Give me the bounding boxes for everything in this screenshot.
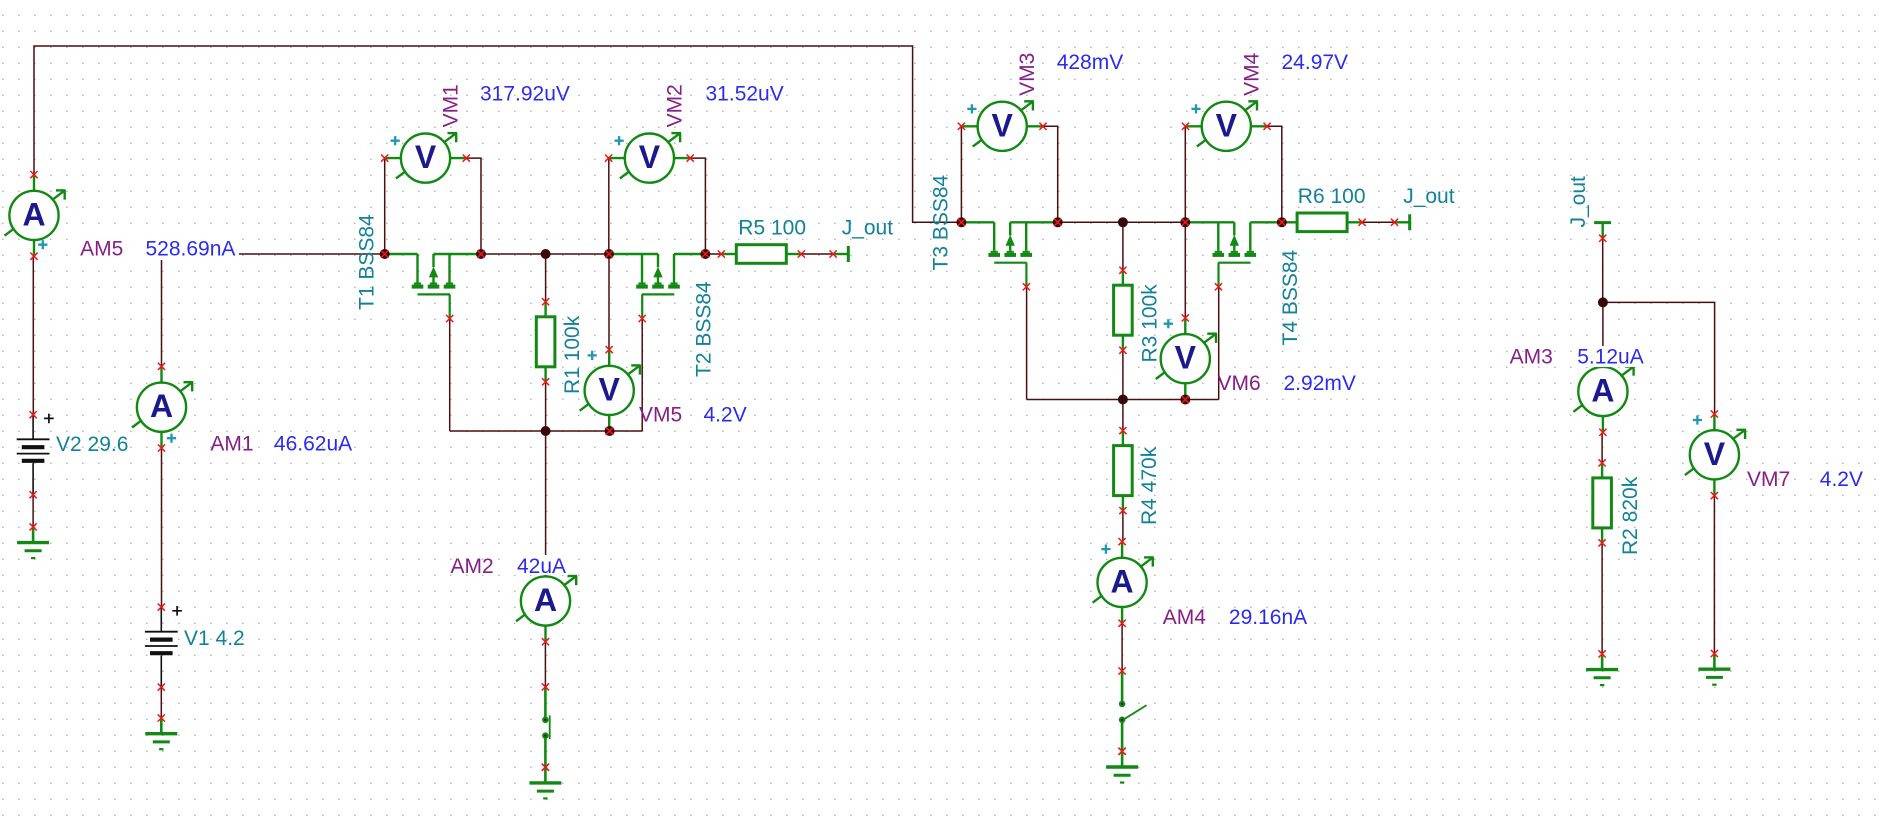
label R5 100 xyxy=(738,216,806,239)
svg-text:R6 100: R6 100 xyxy=(1298,185,1366,208)
voltmeter VM2 xyxy=(605,133,694,183)
label AM4 xyxy=(1163,606,1207,629)
transistor T1 BSS84 xyxy=(385,254,481,322)
svg-text:AM4: AM4 xyxy=(1163,606,1207,629)
wire VM1 right drop xyxy=(466,158,481,254)
value AM5 528.69nA xyxy=(141,237,239,260)
svg-text:AM3: AM3 xyxy=(1510,346,1553,369)
label VM3 xyxy=(1016,53,1039,96)
svg-text:VM4: VM4 xyxy=(1240,52,1263,96)
resistor R2 820k xyxy=(1593,459,1612,546)
wire R1 top xyxy=(545,254,547,302)
svg-text:428mV: 428mV xyxy=(1057,51,1124,74)
wire gate rail to AM2 xyxy=(545,431,547,560)
transistor T2 BSS84 xyxy=(609,254,705,322)
node T3 source / VM3- xyxy=(1053,217,1063,227)
label R3 100k xyxy=(1139,284,1162,363)
svg-text:A: A xyxy=(534,582,557,618)
ammeter AM5 xyxy=(5,171,66,260)
wire T1 gate drop xyxy=(449,319,451,432)
wire V2 to ground xyxy=(32,495,34,527)
value VM1 317.92uV xyxy=(480,83,570,106)
svg-text:AM5: AM5 xyxy=(80,237,123,260)
value VM7 4.2V xyxy=(1820,468,1863,491)
wire R6 to J_out xyxy=(1362,221,1394,223)
label J_out far right xyxy=(1567,176,1590,228)
resistor R4 470k xyxy=(1114,427,1133,514)
transistor T4 BSS84 xyxy=(1185,222,1281,290)
wire R3 top xyxy=(1122,222,1124,270)
wire node to AM3 xyxy=(1602,302,1604,350)
switch below AM2 (closed) xyxy=(542,683,550,771)
svg-text:J_out: J_out xyxy=(1403,185,1455,208)
resistor R5 100 xyxy=(718,245,805,264)
node T1 drain / input xyxy=(380,249,390,259)
wire VM4 left drop xyxy=(1184,126,1186,222)
node R3 top xyxy=(1118,217,1128,227)
svg-text:T1 BSS84: T1 BSS84 xyxy=(356,214,379,310)
node J_out / AM3 / VM7 xyxy=(1598,297,1608,307)
svg-text:T3 BSS84: T3 BSS84 xyxy=(930,174,953,270)
wire T2 to R5 xyxy=(705,253,721,255)
wire AM1 to V1 xyxy=(161,449,163,607)
label AM3 xyxy=(1510,346,1553,369)
label VM7 xyxy=(1747,468,1790,491)
svg-text:R2 820k: R2 820k xyxy=(1619,476,1642,555)
switch below AM4 (open) xyxy=(1119,667,1147,755)
svg-text:VM2: VM2 xyxy=(663,84,686,127)
label VM1 xyxy=(440,84,463,127)
voltmeter VM4 xyxy=(1182,101,1271,151)
label R4 470k xyxy=(1138,446,1161,525)
wire R3 bottom xyxy=(1122,350,1124,399)
svg-text:2.92mV: 2.92mV xyxy=(1284,372,1356,395)
wire bottom gate rail left block xyxy=(450,430,643,432)
svg-text:A: A xyxy=(1111,563,1134,599)
svg-text:V1 4.2: V1 4.2 xyxy=(184,627,245,650)
value VM3 428mV xyxy=(1057,51,1124,74)
resistor R3 100k xyxy=(1114,267,1133,354)
wire V1 to ground xyxy=(160,687,162,718)
wire AM4 to switch xyxy=(1121,623,1123,671)
svg-text:VM3: VM3 xyxy=(1016,53,1039,96)
svg-text:42uA: 42uA xyxy=(517,555,566,578)
label R1 100k xyxy=(561,315,584,394)
wire gate rail to R4 xyxy=(1122,400,1124,431)
svg-text:VM6: VM6 xyxy=(1218,372,1261,395)
svg-text:V: V xyxy=(599,371,621,407)
svg-text:31.52uV: 31.52uV xyxy=(706,83,784,106)
label AM5 xyxy=(76,237,136,260)
label J_out right xyxy=(1403,185,1455,208)
ammeter AM3 xyxy=(1573,347,1634,436)
wire T4 gate drop xyxy=(1218,287,1220,400)
svg-text:AM1: AM1 xyxy=(210,432,253,455)
wire bottom gate rail right block xyxy=(1027,399,1219,401)
svg-text:5.12uA: 5.12uA xyxy=(1577,346,1644,369)
wire VM6 top xyxy=(1184,222,1186,318)
ground below AM4 xyxy=(1106,748,1138,783)
value VM4 24.97V xyxy=(1282,51,1349,74)
wire AM1 node to T1 gate rail xyxy=(162,254,385,367)
svg-text:V: V xyxy=(992,107,1014,143)
svg-text:T4 BSS84: T4 BSS84 xyxy=(1279,249,1302,345)
svg-text:VM1: VM1 xyxy=(440,84,463,127)
voltmeter VM5 xyxy=(580,346,641,435)
svg-text:A: A xyxy=(22,196,45,232)
ground below V1 xyxy=(145,714,177,749)
wire VM7 to ground xyxy=(1713,496,1715,654)
wire VM5 top xyxy=(608,254,610,350)
transistor T3 BSS84 xyxy=(961,222,1057,290)
svg-text:46.62uA: 46.62uA xyxy=(274,432,352,455)
resistor R1 100k xyxy=(536,298,555,385)
svg-text:VM5: VM5 xyxy=(639,404,682,427)
label V1 value xyxy=(184,627,245,650)
label VM2 xyxy=(663,84,686,127)
wire node to VM7 xyxy=(1603,302,1715,414)
wire T3 gate drop xyxy=(1026,287,1028,400)
value VM6 2.92mV xyxy=(1284,372,1356,395)
node VM6- on gate rail xyxy=(1180,395,1190,405)
label R6 100 xyxy=(1298,185,1366,208)
svg-text:4.2V: 4.2V xyxy=(1820,468,1863,491)
ammeter AM4 xyxy=(1093,538,1154,627)
label J_out left xyxy=(842,216,894,239)
node T4 drain / R6 (J_out net) xyxy=(1277,217,1287,227)
svg-text:A: A xyxy=(1591,373,1614,409)
battery V2 29.6 xyxy=(17,411,54,498)
svg-text:T2 BSS84: T2 BSS84 xyxy=(693,281,716,377)
wire VM1 left drop xyxy=(384,158,386,254)
wire VM4 right drop xyxy=(1267,126,1282,222)
label AM2 xyxy=(451,555,494,578)
svg-text:AM2: AM2 xyxy=(451,555,494,578)
value VM2 31.52uV xyxy=(706,83,784,106)
wire T2 gate drop xyxy=(641,319,643,432)
voltmeter VM1 xyxy=(381,133,470,183)
value VM5 4.2V xyxy=(704,404,747,427)
value AM4 29.16nA xyxy=(1229,606,1307,629)
wire R1 bottom xyxy=(545,382,547,431)
voltmeter VM6 xyxy=(1156,314,1217,403)
wire VM3 left drop xyxy=(960,126,962,222)
value AM1 46.62uA xyxy=(274,432,352,455)
svg-text:J_out: J_out xyxy=(842,216,894,239)
wire AM2 to switch xyxy=(544,642,546,687)
node gate rail / AM2 xyxy=(541,426,551,436)
node VM5- on gate rail xyxy=(605,426,615,436)
svg-text:VM7: VM7 xyxy=(1747,468,1790,491)
input terminal J_out far right xyxy=(1594,223,1611,242)
svg-text:4.2V: 4.2V xyxy=(704,404,747,427)
label T2 BSS84 xyxy=(693,281,716,377)
node T1 source / VM1- xyxy=(476,249,486,259)
node gate rail / R4 xyxy=(1118,395,1128,405)
node T2 drain / R5 (J_out net) xyxy=(700,249,710,259)
wire rail T1 to T2 xyxy=(481,253,609,255)
wire VM3 right drop xyxy=(1043,126,1058,222)
wire V2 feed to top rail and down to T3 block xyxy=(34,46,961,222)
svg-text:V: V xyxy=(1175,340,1197,376)
label T4 BSS84 xyxy=(1279,249,1302,345)
wire VM2 left drop xyxy=(608,158,610,254)
svg-text:528.69nA: 528.69nA xyxy=(146,237,236,260)
label VM4 xyxy=(1240,52,1263,96)
wire rail T3 to T4 xyxy=(1058,221,1186,223)
node T4 source / VM4+ / VM6+ xyxy=(1180,217,1190,227)
value AM2 42uA xyxy=(513,555,568,578)
svg-text:V: V xyxy=(415,139,437,175)
label VM6 xyxy=(1218,372,1261,395)
label R2 820k xyxy=(1619,476,1642,555)
node T3 drain / input xyxy=(956,217,966,227)
value AM3 5.12uA xyxy=(1573,346,1649,369)
output terminal J_out left xyxy=(830,246,849,262)
svg-text:24.97V: 24.97V xyxy=(1282,51,1349,74)
ground below V2 xyxy=(17,523,49,558)
svg-text:V: V xyxy=(1704,436,1726,472)
svg-text:R1 100k: R1 100k xyxy=(561,315,584,394)
label T3 BSS84 xyxy=(930,174,953,270)
svg-text:V: V xyxy=(1216,107,1238,143)
svg-text:29.16nA: 29.16nA xyxy=(1229,606,1307,629)
ammeter AM1 xyxy=(132,363,193,452)
svg-text:A: A xyxy=(150,388,173,424)
ground below R2 xyxy=(1586,650,1618,685)
voltmeter VM3 xyxy=(958,101,1047,151)
label T1 BSS84 xyxy=(356,214,379,310)
node R1 top xyxy=(541,249,551,259)
wire AM5 to V2 xyxy=(32,254,34,414)
svg-text:R3 100k: R3 100k xyxy=(1139,284,1162,363)
label VM5 xyxy=(639,404,682,427)
svg-text:R4 470k: R4 470k xyxy=(1138,446,1161,525)
output terminal J_out right xyxy=(1391,214,1410,230)
wire J_out input to node xyxy=(1602,238,1604,302)
label V2 value xyxy=(56,433,128,456)
node T2 source / VM2+ / VM5+ xyxy=(604,249,614,259)
svg-text:V2 29.6: V2 29.6 xyxy=(56,433,128,456)
svg-text:J_out: J_out xyxy=(1567,176,1590,228)
ground below AM2 xyxy=(529,764,561,799)
ammeter AM2 xyxy=(516,557,577,646)
wire R4 to AM4 xyxy=(1122,511,1124,542)
battery V1 4.2 xyxy=(145,604,182,691)
wire R2 to ground xyxy=(1601,543,1603,654)
label AM1 xyxy=(210,432,253,455)
ground below VM7 xyxy=(1698,650,1730,685)
svg-text:R5 100: R5 100 xyxy=(738,216,806,239)
wire VM2 right drop xyxy=(690,158,705,254)
wire AM3 to R2 xyxy=(1601,432,1603,463)
svg-text:V: V xyxy=(639,139,661,175)
svg-text:317.92uV: 317.92uV xyxy=(480,83,570,106)
resistor R6 100 xyxy=(1282,213,1366,232)
voltmeter VM7 xyxy=(1685,410,1746,499)
wire R5 to J_out xyxy=(801,253,833,255)
